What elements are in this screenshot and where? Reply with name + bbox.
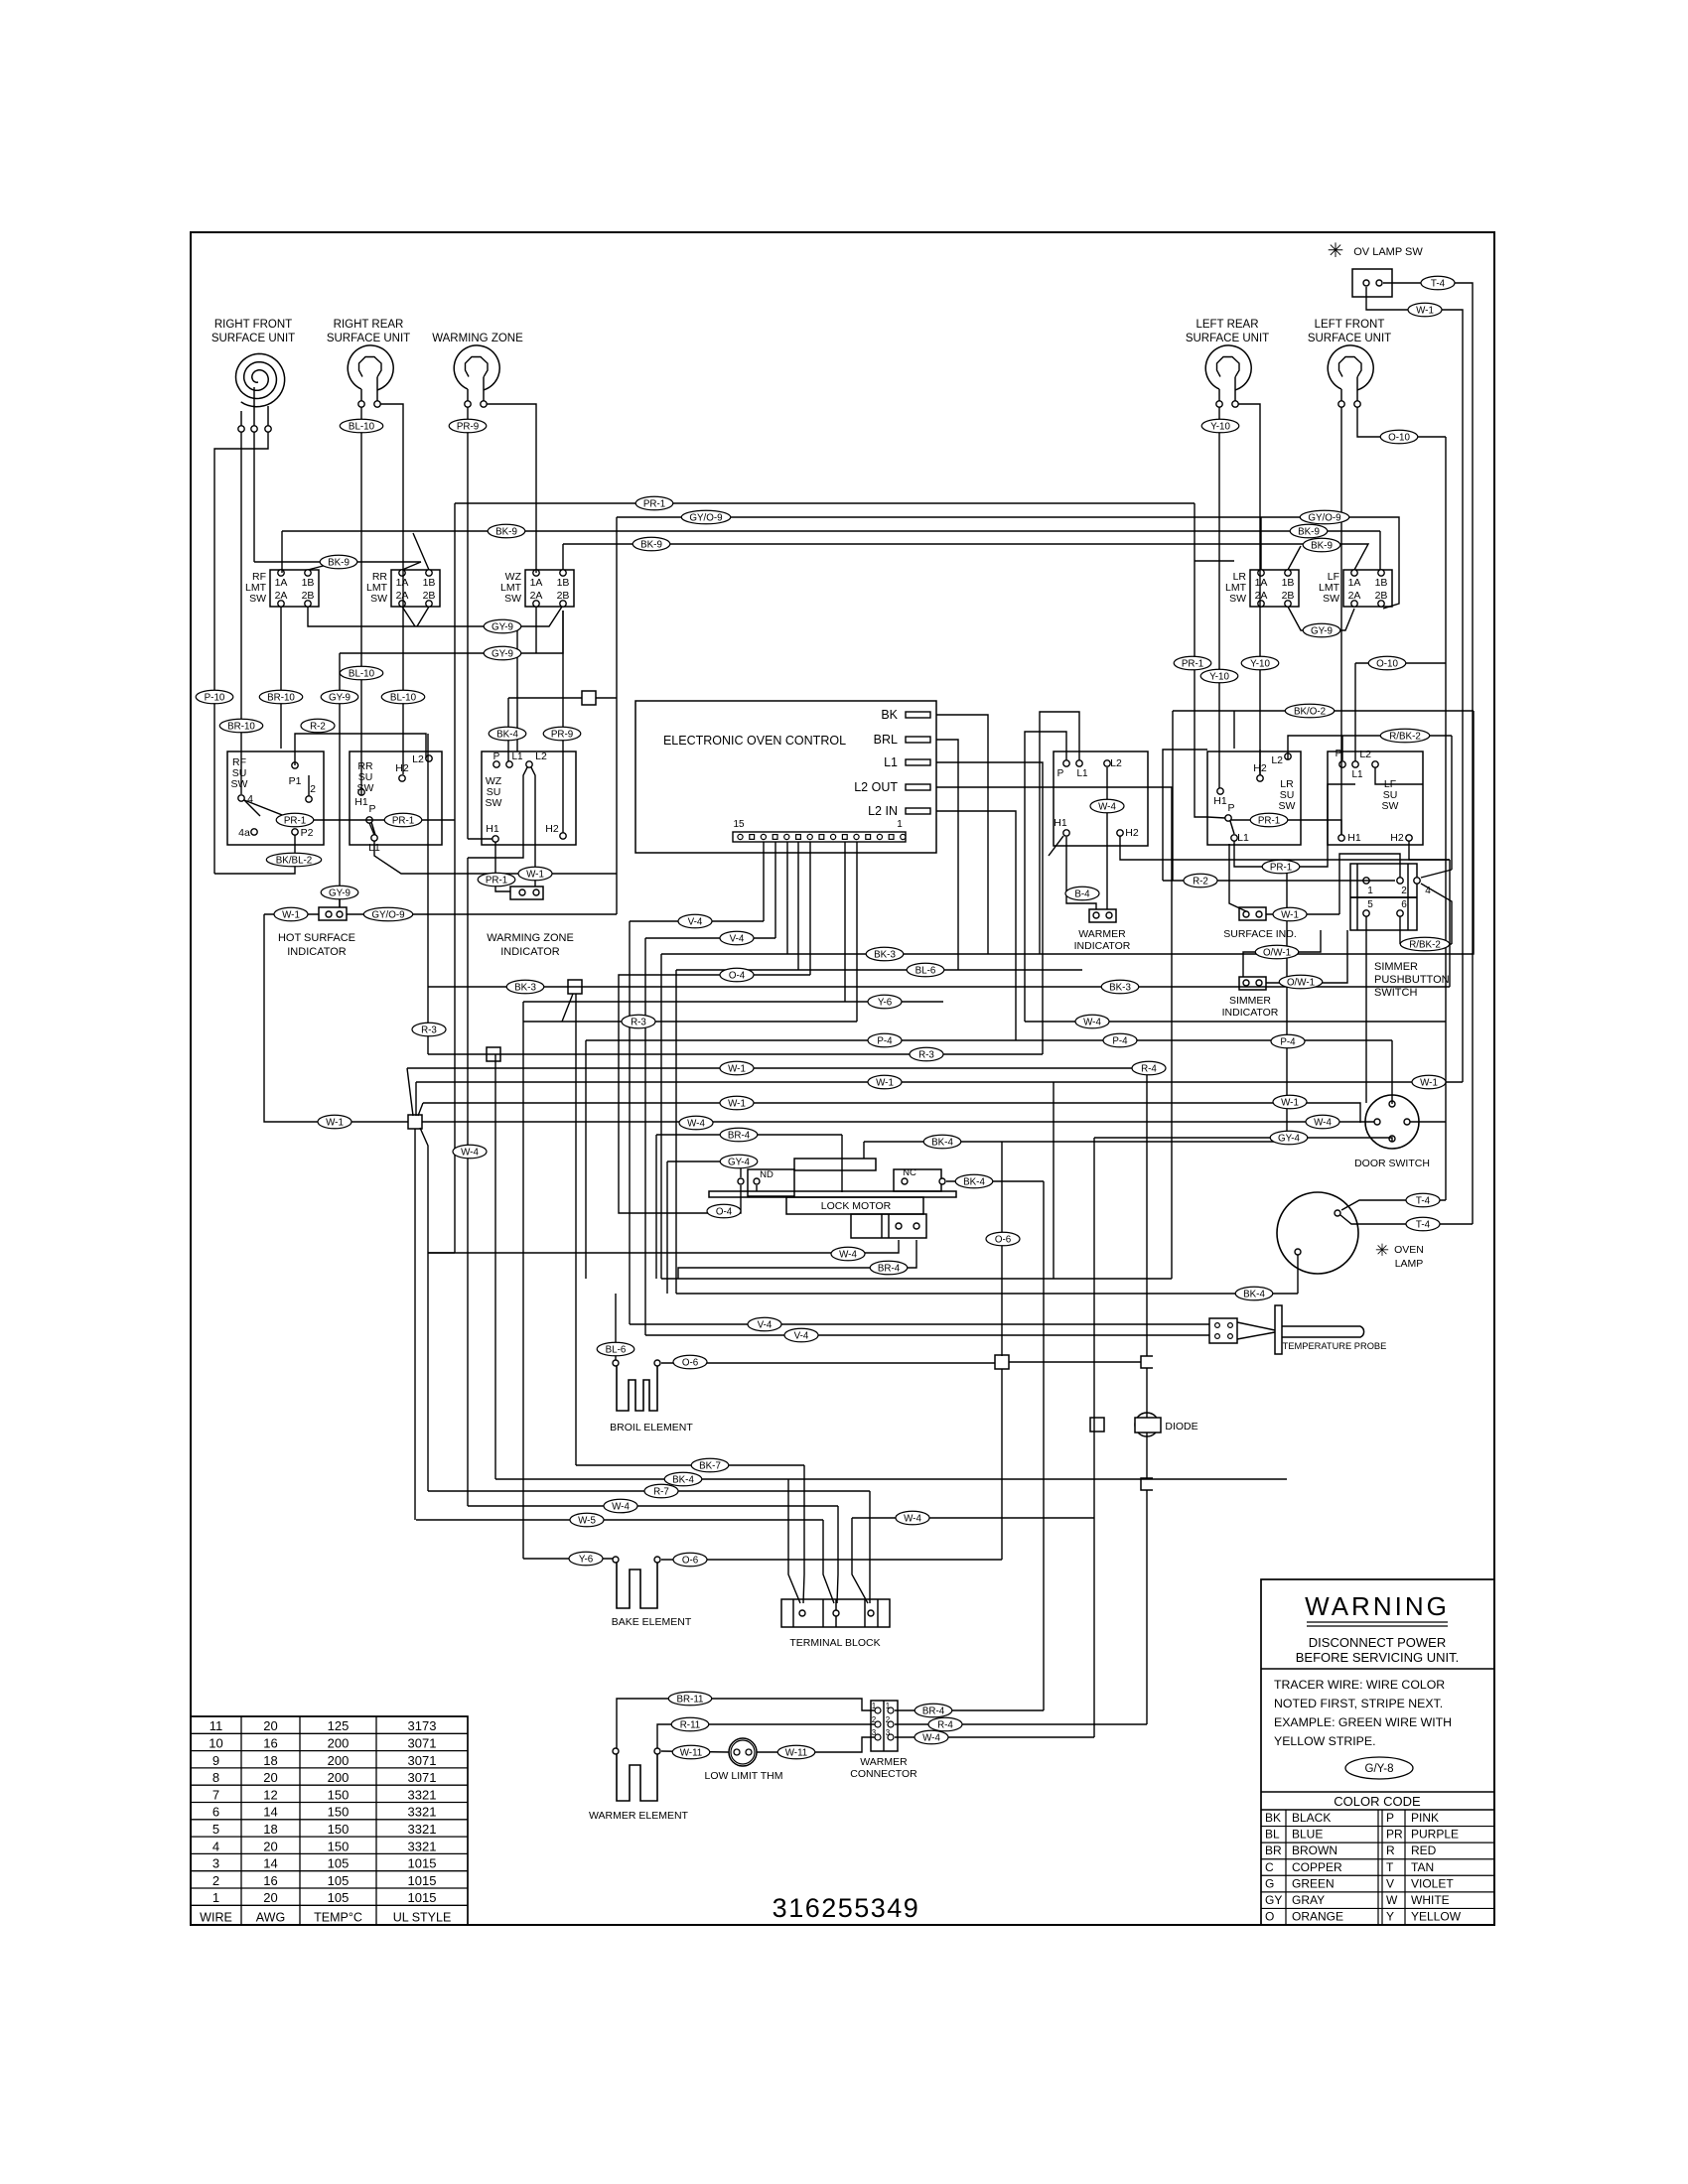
wire label W-1 xyxy=(518,867,552,881)
svg-text:DOOR SWITCH: DOOR SWITCH xyxy=(1354,1158,1430,1169)
svg-text:Y-10: Y-10 xyxy=(1210,421,1230,432)
wire W-11 left xyxy=(661,1751,729,1752)
wire label P-10 xyxy=(196,690,233,704)
wire label W-1 xyxy=(274,907,308,921)
svg-text:3071: 3071 xyxy=(408,1753,437,1768)
diode xyxy=(1135,1413,1198,1436)
wire RR 2A diag xyxy=(402,607,415,626)
svg-text:SW: SW xyxy=(504,593,521,605)
svg-text:BR-4: BR-4 xyxy=(878,1263,901,1274)
wire P-4 vert simmer xyxy=(1365,916,1367,1103)
svg-text:1015: 1015 xyxy=(408,1873,437,1888)
wire label BK-3 xyxy=(506,980,544,994)
wire label BK-4 xyxy=(664,1472,702,1486)
svg-text:LEFT FRONT: LEFT FRONT xyxy=(1315,319,1385,331)
svg-text:2A: 2A xyxy=(1255,590,1268,602)
wire BK-9 bus y548 xyxy=(563,544,1368,570)
wire RF lead BR-10 xyxy=(240,432,242,794)
wire BR-4 bus y1143 xyxy=(656,1134,842,1136)
wire R-3 bus y1062 xyxy=(428,1053,1043,1055)
wire WZ L1 riser horiz xyxy=(508,697,582,699)
svg-text:R-7: R-7 xyxy=(653,1486,669,1497)
wire label BR-4 xyxy=(870,1261,908,1275)
wire PR-1 right vert xyxy=(1195,503,1225,818)
wire label W-4 xyxy=(914,1730,948,1744)
svg-text:GY: GY xyxy=(1265,1893,1282,1907)
wire O-10 bus y668 xyxy=(1355,662,1446,664)
wire GY/O-9 bus y521 xyxy=(617,517,1399,609)
svg-text:BK: BK xyxy=(881,708,898,722)
svg-text:BEFORE SERVICING UNIT.: BEFORE SERVICING UNIT. xyxy=(1296,1650,1459,1665)
svg-text:16: 16 xyxy=(263,1873,277,1888)
wire GY-4 bus y1170 xyxy=(667,1160,741,1162)
wire O-6 diode vert xyxy=(1146,1368,1148,1418)
wire V-4 vert x650 xyxy=(644,938,646,1335)
wire O-10 vert x1456 xyxy=(1445,437,1447,1200)
wire label O-6 xyxy=(673,1553,707,1567)
svg-text:316255349: 316255349 xyxy=(773,1893,920,1923)
wire label R/BK-2 xyxy=(1400,937,1449,951)
wire P-4 vert x590 xyxy=(585,1040,587,1279)
door switch xyxy=(1354,1095,1430,1169)
svg-text:5: 5 xyxy=(1367,899,1373,910)
svg-text:W-1: W-1 xyxy=(326,1117,344,1128)
wire label BK-7 xyxy=(691,1458,729,1472)
svg-text:WARMING ZONE: WARMING ZONE xyxy=(487,932,574,944)
svg-text:BK-4: BK-4 xyxy=(931,1137,953,1148)
svg-text:PR-1: PR-1 xyxy=(486,875,507,886)
svg-text:SURFACE UNIT: SURFACE UNIT xyxy=(211,333,295,344)
wire BK-4 bus y1150 xyxy=(864,1141,1287,1143)
wire label BL-6 xyxy=(907,963,944,977)
svg-text:PR-1: PR-1 xyxy=(1182,658,1203,669)
wire label GY-9 xyxy=(1303,623,1340,637)
svg-text:BL-10: BL-10 xyxy=(390,692,417,703)
wire W-4 drop xyxy=(837,1506,838,1603)
svg-text:WARNING: WARNING xyxy=(1305,1591,1450,1621)
svg-text:WHITE: WHITE xyxy=(1411,1893,1450,1907)
wire label BL-6 xyxy=(597,1342,634,1356)
wire W-4 bus y1029 xyxy=(1025,1021,1446,1023)
svg-text:GY/O-9: GY/O-9 xyxy=(1308,512,1340,523)
svg-text:R-3: R-3 xyxy=(421,1024,437,1035)
wire BK-3 bus y994 xyxy=(428,986,1450,988)
svg-text:P-4: P-4 xyxy=(1112,1035,1128,1046)
wire label BK-3 xyxy=(1101,980,1139,994)
svg-text:TRACER WIRE: WIRE COLOR: TRACER WIRE: WIRE COLOR xyxy=(1274,1678,1445,1692)
wire W-11 right xyxy=(757,1737,875,1752)
svg-text:4a: 4a xyxy=(238,827,250,839)
svg-text:DIODE: DIODE xyxy=(1165,1421,1197,1433)
wire label R-11 xyxy=(671,1717,709,1731)
svg-text:H2: H2 xyxy=(1390,832,1404,844)
svg-text:3321: 3321 xyxy=(408,1787,437,1802)
svg-text:L2: L2 xyxy=(1110,757,1122,769)
wire O-6 vert x1009 xyxy=(1001,1369,1003,1560)
wire WZ L2 hairpin left xyxy=(468,767,527,858)
wire pin drop V-4 a xyxy=(763,842,765,921)
wire label BK-3 xyxy=(866,947,904,961)
svg-text:3321: 3321 xyxy=(408,1822,437,1837)
svg-text:P-10: P-10 xyxy=(205,692,225,703)
wire label R-3 xyxy=(412,1023,446,1036)
svg-text:GY-9: GY-9 xyxy=(329,692,351,703)
svg-text:150: 150 xyxy=(328,1787,350,1802)
wire label GY-4 xyxy=(720,1155,758,1168)
wire GY-9 vert to hot surface ind xyxy=(339,653,341,907)
svg-text:PR-1: PR-1 xyxy=(643,498,665,509)
svg-text:LEFT REAR: LEFT REAR xyxy=(1196,319,1258,331)
svg-text:BR-4: BR-4 xyxy=(728,1130,751,1141)
svg-text:P-4: P-4 xyxy=(877,1035,893,1046)
svg-text:R-2: R-2 xyxy=(310,721,326,732)
svg-text:V: V xyxy=(1386,1876,1394,1890)
svg-text:W-4: W-4 xyxy=(461,1147,479,1158)
svg-text:2A: 2A xyxy=(1348,590,1361,602)
wire R-7 bus y1502 xyxy=(428,1490,870,1492)
svg-text:BK-4: BK-4 xyxy=(1243,1289,1265,1299)
svg-text:O/W-1: O/W-1 xyxy=(1263,947,1291,958)
svg-text:P: P xyxy=(1227,802,1234,814)
svg-text:L2: L2 xyxy=(1359,749,1371,760)
lock motor xyxy=(709,1159,956,1238)
wire label R-3 xyxy=(910,1047,943,1061)
color code table rows xyxy=(1261,1810,1494,1925)
svg-text:11: 11 xyxy=(210,1718,223,1733)
svg-text:V-4: V-4 xyxy=(688,916,703,927)
wire label PR-9 xyxy=(449,419,487,433)
svg-text:8: 8 xyxy=(212,1770,219,1785)
svg-text:T-4: T-4 xyxy=(1431,278,1446,289)
wire BK-9 bus y535 xyxy=(282,530,1380,532)
wire BK-4 vert x870 xyxy=(863,1142,865,1159)
wire diode to half-square xyxy=(1146,1433,1148,1478)
limit switch LF LMT SW xyxy=(1319,570,1392,607)
wire W-5 bus y1531 xyxy=(416,1519,823,1521)
svg-text:WARMER: WARMER xyxy=(860,1756,908,1768)
svg-text:SW: SW xyxy=(486,797,502,809)
svg-text:BK-9: BK-9 xyxy=(640,539,662,550)
svg-text:C: C xyxy=(1265,1860,1274,1874)
svg-text:L1: L1 xyxy=(1351,769,1363,780)
svg-text:W-4: W-4 xyxy=(839,1249,857,1260)
wire label BK-9 xyxy=(488,524,525,538)
warmer connector xyxy=(850,1701,917,1780)
svg-text:H1: H1 xyxy=(354,796,368,808)
wire WZ unit lead left xyxy=(467,407,469,839)
svg-text:2: 2 xyxy=(310,783,316,795)
svg-text:GY-4: GY-4 xyxy=(1278,1133,1301,1144)
svg-text:2: 2 xyxy=(212,1873,219,1888)
warmer element xyxy=(589,1748,689,1822)
svg-text:W-4: W-4 xyxy=(1098,801,1116,812)
wire label Y-6 xyxy=(569,1552,603,1566)
wire label GY/O-9 xyxy=(363,907,412,921)
wire label W-11 xyxy=(777,1745,815,1759)
wire BK-9 bus y566 xyxy=(254,561,421,563)
svg-text:BK-4: BK-4 xyxy=(672,1474,694,1485)
wire ND pin right xyxy=(756,1185,758,1191)
svg-text:P: P xyxy=(368,803,375,815)
wire BK/O-2 drop to R-2 xyxy=(1172,711,1174,881)
broil element xyxy=(610,1360,693,1433)
svg-text:O/W-1: O/W-1 xyxy=(1287,977,1315,988)
wire BR-4 vert x661 xyxy=(655,1135,657,1279)
svg-text:R-3: R-3 xyxy=(918,1049,934,1060)
svg-text:ND: ND xyxy=(760,1169,774,1180)
svg-text:BK-4: BK-4 xyxy=(496,729,518,740)
svg-text:TAN: TAN xyxy=(1411,1860,1434,1874)
wire LR H2 riser xyxy=(1259,750,1261,775)
svg-text:HOT SURFACE: HOT SURFACE xyxy=(278,932,355,944)
wire RR P to L1 xyxy=(369,823,374,835)
svg-text:16: 16 xyxy=(263,1736,277,1751)
svg-text:3: 3 xyxy=(212,1856,219,1871)
wire V-4 bus y945 xyxy=(645,937,775,939)
wire BR-4 drop xyxy=(678,1240,916,1279)
svg-text:GY-9: GY-9 xyxy=(1311,625,1333,636)
wire W-1 lamp switch xyxy=(1366,287,1463,1082)
bake element xyxy=(612,1557,692,1628)
svg-text:WIRE: WIRE xyxy=(200,1910,232,1924)
svg-text:105: 105 xyxy=(328,1856,350,1871)
wire WZ L2 hairpin right xyxy=(531,767,535,887)
surface switch LF SU SW xyxy=(1328,749,1423,845)
svg-text:150: 150 xyxy=(328,1822,350,1837)
warmer indicator xyxy=(1074,909,1131,952)
wire RF lead middle xyxy=(253,432,255,562)
wire W-1 vert funnel b xyxy=(415,1082,417,1116)
WZ warming zone coil xyxy=(432,333,523,407)
wire label GY/O-9 xyxy=(1300,510,1348,524)
wire label W-1 xyxy=(1408,303,1442,317)
svg-text:12: 12 xyxy=(263,1787,277,1802)
wire W-5 drop xyxy=(823,1520,834,1603)
wire LF L1 riser xyxy=(1354,663,1356,761)
wire door switch bottom GY-4 xyxy=(1094,1138,1392,1142)
wire vert x499 xyxy=(494,1054,496,1479)
svg-text:GY/O-9: GY/O-9 xyxy=(371,909,404,920)
wire label O-10 xyxy=(1380,430,1418,444)
wire label BK-9 xyxy=(320,555,357,569)
wire W-4 bus y1262 xyxy=(428,1240,899,1253)
warming zone indicator xyxy=(487,887,574,958)
svg-text:H1: H1 xyxy=(1054,817,1067,829)
wire BK-4 vert x1051 xyxy=(1043,1181,1045,1710)
wire W-1 bus y1111 xyxy=(423,1103,1360,1123)
wire label W-5 xyxy=(570,1513,604,1527)
svg-text:✳: ✳ xyxy=(1375,1241,1389,1260)
svg-text:3071: 3071 xyxy=(408,1770,437,1785)
svg-text:W-4: W-4 xyxy=(612,1501,630,1512)
wire label PR-1 xyxy=(1174,656,1211,670)
wire PR-1 LR bus y826 xyxy=(1231,820,1341,835)
svg-text:BR-11: BR-11 xyxy=(676,1694,703,1705)
svg-text:L1: L1 xyxy=(884,755,898,769)
wire EOC L2 IN out xyxy=(936,811,1016,1040)
svg-text:ORANGE: ORANGE xyxy=(1292,1910,1343,1924)
wire surface ind wire xyxy=(1266,913,1339,915)
svg-text:BK-9: BK-9 xyxy=(1298,526,1320,537)
svg-text:BK/O-2: BK/O-2 xyxy=(1294,706,1326,717)
svg-text:150: 150 xyxy=(328,1839,350,1853)
wire bake Y-6 xyxy=(523,1558,613,1560)
svg-text:V-4: V-4 xyxy=(730,933,745,944)
wire label V-4 xyxy=(748,1317,781,1331)
wire label R-2 xyxy=(301,719,335,733)
svg-text:SW: SW xyxy=(1323,593,1339,605)
svg-text:Y-6: Y-6 xyxy=(579,1554,594,1565)
wire broil O-6 xyxy=(661,1362,995,1364)
svg-text:UL STYLE: UL STYLE xyxy=(393,1910,452,1924)
wire label V-4 xyxy=(784,1328,818,1342)
surface switch RF SU SW xyxy=(227,751,324,845)
svg-text:2B: 2B xyxy=(1375,590,1388,602)
wire O/W-1 lower xyxy=(1266,930,1347,983)
svg-text:2A: 2A xyxy=(396,590,409,602)
svg-text:1B: 1B xyxy=(1375,577,1388,589)
svg-text:200: 200 xyxy=(328,1736,350,1751)
wire T-4 lamp line xyxy=(1341,1200,1446,1210)
svg-text:O-6: O-6 xyxy=(995,1234,1012,1245)
svg-text:1B: 1B xyxy=(1282,577,1295,589)
wire label BK-4 xyxy=(955,1174,993,1188)
svg-text:NOTED FIRST, STRIPE NEXT.: NOTED FIRST, STRIPE NEXT. xyxy=(1274,1697,1443,1710)
connector half-square lower xyxy=(1141,1478,1153,1490)
svg-text:PR-1: PR-1 xyxy=(1270,862,1292,873)
wire RR unit lead left xyxy=(360,407,362,788)
svg-text:1A: 1A xyxy=(530,577,543,589)
wire label Y-10 xyxy=(1200,669,1238,683)
svg-text:O-10: O-10 xyxy=(1388,432,1410,443)
svg-text:2A: 2A xyxy=(275,590,288,602)
svg-text:2B: 2B xyxy=(423,590,436,602)
wire vert x1462 xyxy=(1451,736,1453,870)
svg-text:L2 IN: L2 IN xyxy=(868,804,898,818)
wire label O-4 xyxy=(720,968,754,982)
svg-text:W-5: W-5 xyxy=(578,1515,596,1526)
wire RF 1A up xyxy=(281,531,283,573)
wire Y-6 bus y1009 xyxy=(523,1001,943,1003)
wire label O-6 xyxy=(986,1232,1020,1246)
svg-text:W-1: W-1 xyxy=(876,1077,894,1088)
wire label GY-9 xyxy=(321,886,358,899)
svg-text:LOCK MOTOR: LOCK MOTOR xyxy=(821,1200,892,1212)
svg-text:H1: H1 xyxy=(1347,832,1361,844)
svg-text:WARMING ZONE: WARMING ZONE xyxy=(432,333,523,344)
svg-text:200: 200 xyxy=(328,1753,350,1768)
svg-text:20: 20 xyxy=(263,1770,277,1785)
svg-text:BK-9: BK-9 xyxy=(1311,540,1333,551)
svg-text:W: W xyxy=(1386,1893,1398,1907)
svg-text:GY/O-9: GY/O-9 xyxy=(689,512,722,523)
svg-text:R/BK-2: R/BK-2 xyxy=(1389,731,1421,742)
wire LR right lead T to PR-1 xyxy=(1195,560,1234,562)
svg-text:YELLOW: YELLOW xyxy=(1411,1910,1462,1924)
svg-text:1A: 1A xyxy=(1348,577,1361,589)
wire W-4 bus y1529 xyxy=(852,1517,1094,1519)
EOC 15-pin connector xyxy=(733,819,906,842)
wire R-4 vert x1155 xyxy=(1146,1068,1148,1356)
wire T-4 lamp line 2 xyxy=(1340,1215,1473,1224)
svg-text:H1: H1 xyxy=(486,823,499,835)
wire label BK-4 xyxy=(1235,1287,1273,1300)
svg-text:PUSHBUTTON: PUSHBUTTON xyxy=(1374,974,1450,986)
svg-text:1A: 1A xyxy=(396,577,409,589)
svg-text:SIMMER: SIMMER xyxy=(1229,995,1271,1007)
wire label W-4 xyxy=(604,1499,637,1513)
wire label W-1 xyxy=(1273,907,1307,921)
svg-text:200: 200 xyxy=(328,1770,350,1785)
wire O/W-1 upper xyxy=(1243,930,1321,977)
simmer pushbutton switch xyxy=(1350,864,1450,999)
wire label W-1 xyxy=(1273,1095,1307,1109)
svg-text:2B: 2B xyxy=(557,590,570,602)
wire label W-1 xyxy=(720,1096,754,1110)
wire label W-4 xyxy=(896,1511,929,1525)
svg-text:Y-10: Y-10 xyxy=(1209,671,1229,682)
svg-text:W-1: W-1 xyxy=(728,1063,746,1074)
wire label BR-10 xyxy=(259,690,303,704)
svg-text:W-4: W-4 xyxy=(922,1732,940,1743)
svg-text:YELLOW STRIPE.: YELLOW STRIPE. xyxy=(1274,1734,1376,1748)
wire label T-4 xyxy=(1406,1217,1440,1231)
wire warmer H2 to BK-3 row xyxy=(1120,836,1450,860)
wire R-4 connector wire xyxy=(895,1723,1147,1725)
wire PR-1 vert x458 xyxy=(454,503,456,1253)
wire BK-7 drop xyxy=(803,1465,804,1603)
svg-text:6: 6 xyxy=(212,1805,219,1820)
wire label R-7 xyxy=(644,1484,678,1498)
wire label PR-1 xyxy=(478,873,515,887)
part number 316255349 xyxy=(773,1893,920,1923)
wire O-6 connector line xyxy=(1009,1361,1141,1363)
junction connector at 497,1062 xyxy=(487,1047,500,1061)
wire P-4 bus y1048 xyxy=(586,1039,1392,1041)
svg-text:BL-6: BL-6 xyxy=(606,1344,627,1355)
wire label B-4 xyxy=(1065,887,1099,900)
wire junction drop W-5 xyxy=(414,1129,416,1520)
wire R/BK-2 bus y951 xyxy=(1400,943,1452,945)
svg-text:✳: ✳ xyxy=(1328,240,1344,262)
wire W-4 bus y1131 xyxy=(422,1121,1374,1123)
wire label BL-10 xyxy=(381,690,425,704)
wire PR-1 bus y826 xyxy=(244,800,455,820)
wire label T-4 xyxy=(1421,276,1455,290)
wire PR-1 bus y507 xyxy=(455,502,1195,504)
wire R-3 bus y1029 xyxy=(523,1021,857,1023)
svg-text:H2: H2 xyxy=(545,823,559,835)
wire pin drop R-3 xyxy=(856,842,858,1022)
svg-text:V-4: V-4 xyxy=(758,1319,773,1330)
wire LF P wire xyxy=(1341,736,1343,760)
svg-text:OVEN: OVEN xyxy=(1394,1244,1424,1256)
svg-text:P-4: P-4 xyxy=(1280,1036,1296,1047)
wire label W-1 xyxy=(1412,1075,1446,1089)
svg-text:W-1: W-1 xyxy=(1281,1097,1299,1108)
wire BK-3 bus y961 xyxy=(661,711,1474,954)
wire label BL-10 xyxy=(340,419,383,433)
svg-text:INDICATOR: INDICATOR xyxy=(287,946,347,958)
wire GY-4 vert x672 xyxy=(666,1161,668,1294)
wire NC out BK-4 xyxy=(946,1180,1044,1182)
svg-text:6: 6 xyxy=(1401,899,1407,910)
svg-text:2B: 2B xyxy=(302,590,315,602)
svg-text:R-2: R-2 xyxy=(1193,876,1208,887)
svg-text:TEMP°C: TEMP°C xyxy=(314,1910,362,1924)
svg-text:OV LAMP SW: OV LAMP SW xyxy=(1353,246,1423,258)
wire WZ L1 riser BK-4 xyxy=(507,698,509,761)
